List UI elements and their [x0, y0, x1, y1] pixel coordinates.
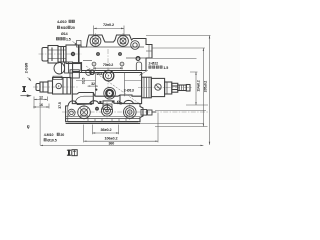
- bottom view ringed port circle: [101, 105, 112, 116]
- counterbored hole top-left (plan): [90, 36, 101, 47]
- svg-text:72±0.2: 72±0.2: [103, 23, 114, 27]
- svg-text:Ø14: Ø14: [61, 32, 68, 36]
- front view section seams: [76, 73, 142, 97]
- svg-text:Ø18: Ø18: [97, 72, 103, 76]
- bottom view small counterbore far-left: [68, 109, 75, 116]
- bottom view small top-edge studs: [90, 101, 122, 105]
- L3 cap circle: [56, 83, 61, 88]
- dimension 16 (left): [33, 104, 49, 109]
- svg-text:2-G3/8: 2-G3/8: [25, 63, 29, 73]
- relief valve assembly (front view right): [142, 77, 190, 98]
- svg-text:31.5: 31.5: [82, 78, 86, 85]
- spool cap screw dot: [71, 52, 75, 56]
- bottom view relief flange rings: [124, 106, 137, 119]
- svg-text:16: 16: [39, 103, 43, 107]
- bottom view center block: [103, 104, 112, 110]
- view direction arrow I (left): [20, 86, 31, 97]
- note 2-G3/8 rotated (left): [25, 63, 32, 82]
- plan left edge block: [77, 41, 82, 48]
- plan right arch clip: [136, 62, 141, 71]
- wire centerline bottom view vertical left: [83, 103, 85, 121]
- svg-text:1.5: 1.5: [66, 37, 71, 41]
- dimension 36±0.2 (bottom row 1): [93, 125, 119, 135]
- dimension 12 (left): [34, 97, 47, 109]
- svg-text:20: 20: [60, 133, 64, 137]
- bottom view counterbored circle left: [78, 106, 91, 119]
- dimension 360 (bottom row 3, overall): [40, 145, 203, 146]
- view label I向: [67, 150, 77, 156]
- svg-text:35: 35: [117, 101, 121, 105]
- boss circle right (plan): [131, 41, 140, 50]
- lever seat oval (band under cylinder): [54, 62, 82, 74]
- small dark ring hole (front view): [90, 70, 94, 74]
- dimension 70±0.2 (plan): [93, 66, 123, 70]
- wire centerline bottom view vertical flange: [129, 103, 131, 121]
- svg-text:Ø10.5: Ø10.5: [47, 139, 56, 143]
- stud dot between ports (front view): [95, 89, 97, 91]
- note 2-Φ22 counterbore (right of plan view): [139, 62, 168, 76]
- svg-text:12: 12: [39, 95, 43, 99]
- dimension 32 (front view): [88, 85, 99, 86]
- wire centerline spool axis plan view: [39, 53, 83, 55]
- threaded hole dark right (plan): [118, 52, 122, 56]
- svg-text:20: 20: [71, 26, 75, 30]
- wire centerline bottom view vertical mid: [106, 102, 108, 120]
- plan small dark circle right: [136, 57, 140, 61]
- plan right step inner lines: [146, 45, 152, 59]
- plan view body outline: [79, 35, 153, 71]
- note 4-M10 deep 20 (bottom-left): [44, 133, 65, 143]
- svg-text:4-Ø10: 4-Ø10: [57, 20, 67, 24]
- port A ringed circle (front view): [103, 70, 114, 81]
- svg-text:1.5: 1.5: [163, 66, 168, 70]
- small hole left 70-dim (plan): [92, 62, 96, 66]
- relief valve cap screw circle: [155, 84, 161, 90]
- front view right foot: [120, 95, 142, 104]
- vertical dimension 114±0.2 line: [195, 72, 196, 105]
- front view top-left block: [70, 70, 79, 78]
- plan view inner edge lines: [83, 47, 146, 61]
- wire centerline L3 axis: [33, 86, 78, 88]
- svg-text:114±0.2: 114±0.2: [197, 80, 201, 91]
- centerlines group: [33, 33, 209, 121]
- wire centerline main vertical: [107, 49, 109, 101]
- port B dark ringed circle (front view): [104, 87, 116, 99]
- svg-text:2-Ø22: 2-Ø22: [149, 62, 159, 66]
- svg-text:36±0.2: 36±0.2: [101, 128, 112, 132]
- extension line long left x=40 down to 360 dim: [39, 97, 41, 146]
- front view body outline: [72, 72, 141, 104]
- leader small hole to label (front view): [93, 70, 96, 72]
- svg-text:70±0.2: 70±0.2: [103, 63, 113, 67]
- dimension 72±0.2 top: [94, 26, 124, 37]
- svg-text:205±0.2: 205±0.2: [203, 81, 207, 93]
- svg-text:360: 360: [108, 142, 114, 146]
- small hole right 70-dim (plan): [120, 62, 124, 66]
- right-side extension lines: [140, 36, 211, 127]
- bottom view (I direction) outline: [66, 100, 143, 123]
- front view left foot: [72, 93, 93, 104]
- wire centerline bottom view horizontal: [62, 111, 209, 113]
- svg-text:2-Ø13: 2-Ø13: [124, 88, 134, 92]
- threaded hole dark left (plan): [96, 52, 100, 56]
- bottom view seam ticks: [88, 119, 126, 122]
- vertical dimension middle line: [203, 48, 204, 127]
- svg-text:M10: M10: [61, 26, 68, 30]
- svg-text:106±0.2: 106±0.2: [105, 136, 118, 140]
- vertical dimension 205 outer line: [209, 36, 210, 145]
- svg-text:45: 45: [27, 125, 31, 129]
- wire centerline relief valve axis: [138, 87, 192, 89]
- counterbored hole top-right (plan): [118, 36, 129, 47]
- bottom view side screw rects: [141, 110, 156, 116]
- svg-text:37.5: 37.5: [58, 102, 62, 109]
- svg-text:4-M10: 4-M10: [44, 133, 54, 137]
- handle valve assembly L3 (front view left): [36, 76, 71, 94]
- dimension 106±0.2 (bottom row 2): [84, 113, 158, 142]
- wire centerline vertical hole TL: [95, 33, 97, 48]
- bottom view small dark hole: [95, 107, 99, 111]
- wire centerline vertical hole TR: [122, 33, 124, 48]
- small port hole lower-left (plan): [86, 70, 92, 76]
- note 4-Φ10 through-hole (top-left, 4 rows): [56, 20, 78, 46]
- spool end-cap cylinder assembly (plan, left): [42, 45, 79, 64]
- svg-text:32: 32: [91, 82, 95, 86]
